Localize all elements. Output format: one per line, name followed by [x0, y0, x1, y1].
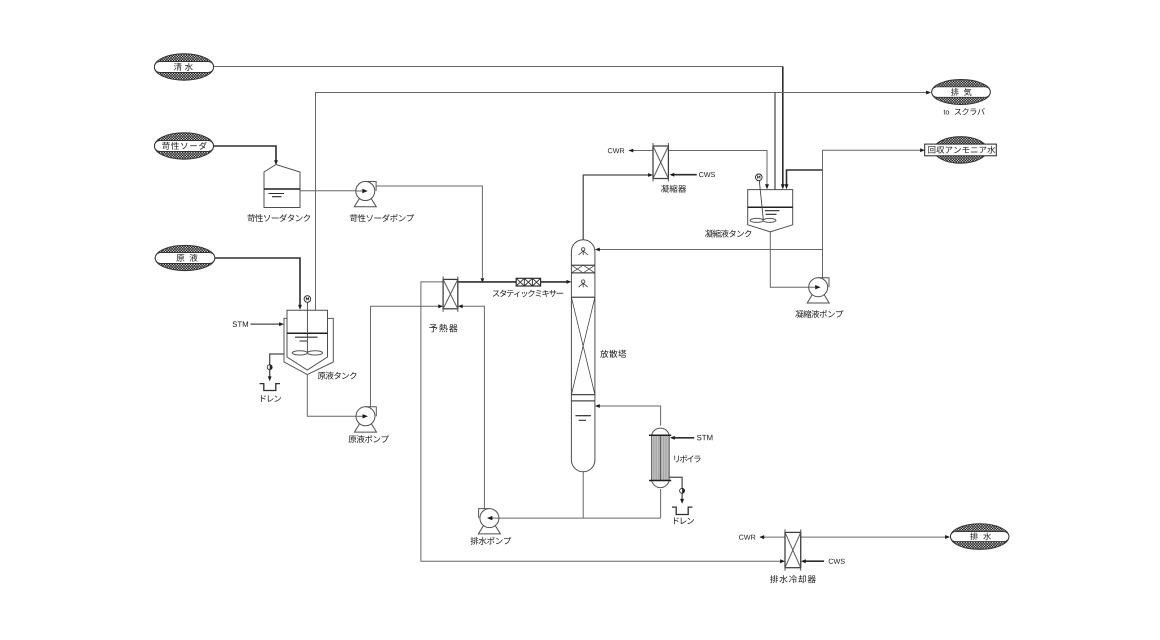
agitator of condensate tank	[759, 181, 763, 220]
exchanger: condenser	[652, 143, 654, 182]
pipe: waste water pump discharge to preheater hot side	[462, 306, 485, 508]
pipe: condensate to tank	[668, 151, 767, 187]
label: drain (reboiler)	[674, 517, 694, 524]
static mixer	[516, 278, 540, 286]
stream oval: waste water	[951, 524, 1009, 550]
label: caustic soda tank	[247, 214, 310, 222]
pipe: raw tank jacket drain	[270, 354, 284, 365]
drain funnel of reboiler	[672, 507, 692, 514]
pump: waste water pump	[478, 526, 500, 534]
stream oval: exhaust gas	[932, 80, 991, 105]
pipe: column bottoms header	[492, 472, 661, 518]
pipe: raw tank outlet to pump	[307, 375, 356, 417]
exchanger: preheater	[442, 276, 444, 311]
column demister band	[571, 264, 595, 266]
pipe: reboiler condensate drain	[669, 477, 682, 488]
column feed spray nozzle	[582, 280, 585, 283]
pipe: condensate tank vent	[774, 93, 776, 190]
pipe: cooler CWR	[760, 536, 785, 538]
label: CWR cooler	[739, 535, 756, 540]
exchanger: waste water cooler	[784, 529, 786, 570]
stream oval: recovered ammonia water	[934, 137, 987, 164]
label: reboiler	[674, 455, 700, 462]
pipe: condensate tank outlet to pump	[770, 232, 808, 287]
stream oval: caustic soda	[155, 133, 214, 159]
label: condensate pump	[795, 310, 843, 318]
pipe: reboiler vapor return	[599, 406, 661, 426]
label: stripping column	[600, 350, 626, 358]
label: to scrubber	[944, 110, 950, 115]
label: raw liquid tank	[318, 372, 357, 380]
pipe: condenser CWS	[673, 174, 697, 176]
motor M of raw liquid tank	[304, 296, 311, 303]
pipe: cooler outlet to waste water	[801, 536, 947, 538]
pipe: steam to raw tank jacket	[251, 323, 281, 325]
pipe: cooler CWS	[805, 560, 825, 562]
motor M of condensate tank	[756, 174, 763, 181]
pipe: column overhead vapor to condenser	[583, 175, 649, 240]
tank: raw liquid tank (jacketed, agitated)	[287, 310, 328, 370]
label: STM to raw tank	[233, 321, 248, 327]
pipe: caustic tank outlet to pump	[300, 190, 356, 192]
pipe: raw liquid feed	[215, 258, 300, 306]
pipe: preheater hot side outlet to cooler	[421, 282, 781, 561]
pipe: condensate pump discharge to recovered ammonia water	[823, 150, 922, 278]
steam trap of raw tank drain	[267, 365, 272, 370]
agitator of raw liquid tank	[306, 302, 308, 352]
pump: caustic soda pump	[354, 199, 376, 207]
pump: raw liquid pump	[355, 424, 377, 432]
label: waste water pump	[471, 537, 512, 545]
column top spray nozzle	[582, 248, 585, 251]
label: raw liquid pump	[349, 435, 389, 443]
stream oval: raw liquid	[155, 245, 215, 270]
pipe: caustic pump discharge to mixing tee	[376, 186, 482, 278]
label: caustic soda pump	[350, 214, 414, 222]
label: preheater	[429, 324, 457, 332]
label: STM to reboiler	[697, 435, 712, 441]
label: CWR condenser	[608, 148, 625, 153]
pipe: caustic soda feed	[213, 146, 276, 162]
stream oval: fresh water	[154, 54, 213, 80]
tank: condensate tank (agitated)	[748, 190, 793, 232]
column packing section	[571, 296, 595, 298]
steam trap of reboiler drain	[680, 488, 685, 493]
column bottom liquid level	[576, 415, 591, 417]
label: waste water cooler	[770, 575, 816, 583]
column: stripping tower shell	[571, 240, 595, 472]
pipe: reflux to column top	[599, 249, 823, 251]
tank: caustic soda tank	[264, 165, 300, 208]
label: condensate tank	[705, 230, 751, 238]
label: CWS condenser	[699, 172, 715, 177]
pipe: vent header to exhaust	[316, 93, 929, 311]
pipe: fresh water header	[214, 66, 783, 68]
pipe: condenser CWR	[629, 150, 653, 152]
drain funnel of raw tank	[260, 384, 280, 391]
pipe: steam to reboiler	[674, 437, 695, 439]
label: drain (raw tank)	[261, 395, 281, 402]
pump: condensate pump	[807, 295, 829, 303]
label: static mixer	[493, 290, 564, 297]
label: CWS cooler	[829, 559, 845, 564]
label: condenser	[661, 185, 686, 193]
pipe: recirculation to condensate tank	[787, 170, 823, 186]
pipe: preheater to column feed (via static mixer)	[458, 281, 568, 283]
reboiler	[652, 428, 670, 488]
pipe: raw pump discharge to preheater	[371, 306, 440, 406]
